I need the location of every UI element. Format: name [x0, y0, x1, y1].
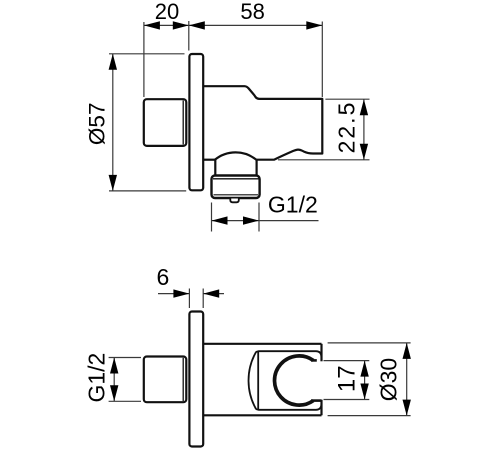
extension line at x=143.9	[143, 22, 145, 97]
extension line at x=322.3	[321, 22, 323, 98]
nut inner top line	[213, 178, 259, 180]
body outline (top view)	[203, 86, 322, 160]
wall plate (top view)	[189, 54, 203, 190]
cup chord line	[257, 352, 259, 409]
C-clip top foot	[311, 359, 317, 362]
svg-text:22.5: 22.5	[334, 101, 360, 154]
wall plate (bottom view)	[189, 312, 203, 447]
coupling nut (top view)	[212, 176, 260, 199]
svg-text:17: 17	[333, 365, 360, 392]
extension line at x=188.8	[188, 21, 190, 51]
holder body (bottom view)	[203, 344, 321, 416]
holder cup bracket (bottom view)	[249, 351, 322, 410]
C-clip bottom foot	[311, 399, 322, 402]
bottom body line between plate and dome	[203, 159, 215, 161]
dimension 6	[158, 289, 224, 309]
svg-text:Ø57: Ø57	[85, 103, 110, 146]
outlet dome (top view)	[215, 152, 257, 160]
threaded nipple (top view)	[144, 99, 187, 146]
dimension 20: dimension line	[144, 21, 322, 97]
outlet neck (top view)	[214, 160, 216, 176]
nut inner bottom line	[214, 194, 259, 196]
threaded nipple (bottom view)	[144, 357, 187, 403]
svg-text:58: 58	[240, 0, 264, 24]
dimension G1/2 (top view)	[212, 203, 319, 232]
C-clip ring (bottom view)	[275, 356, 314, 405]
thread end line	[182, 101, 184, 145]
svg-text:6: 6	[157, 264, 170, 290]
thread end line (bottom view)	[182, 358, 184, 401]
outlet tip	[230, 199, 239, 203]
dimension 22.5	[278, 99, 370, 160]
svg-text:G1/2: G1/2	[268, 192, 318, 218]
arrowheads for 20 and 58	[144, 21, 322, 29]
svg-text:Ø30: Ø30	[376, 358, 402, 401]
dimension D57	[109, 54, 186, 191]
svg-text:20: 20	[155, 0, 179, 24]
dimension G1/2 (bottom view)	[109, 358, 141, 402]
svg-text:G1/2: G1/2	[84, 353, 110, 403]
dimension D30	[328, 343, 411, 416]
dimension 17	[324, 361, 370, 400]
